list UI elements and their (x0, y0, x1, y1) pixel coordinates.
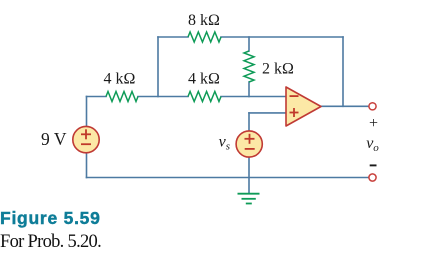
svg-text:8 kΩ: 8 kΩ (188, 12, 220, 29)
svg-text:vo: vo (366, 135, 379, 154)
svg-text:vs: vs (219, 134, 230, 153)
svg-text:4 kΩ: 4 kΩ (188, 71, 220, 88)
svg-text:For Prob. 5.20.: For Prob. 5.20. (0, 232, 101, 252)
svg-text:2 kΩ: 2 kΩ (262, 61, 294, 78)
svg-text:9 V: 9 V (41, 129, 67, 149)
svg-text:+: + (369, 115, 378, 132)
svg-text:4 kΩ: 4 kΩ (104, 71, 136, 88)
svg-text:Figure 5.59: Figure 5.59 (0, 208, 101, 228)
